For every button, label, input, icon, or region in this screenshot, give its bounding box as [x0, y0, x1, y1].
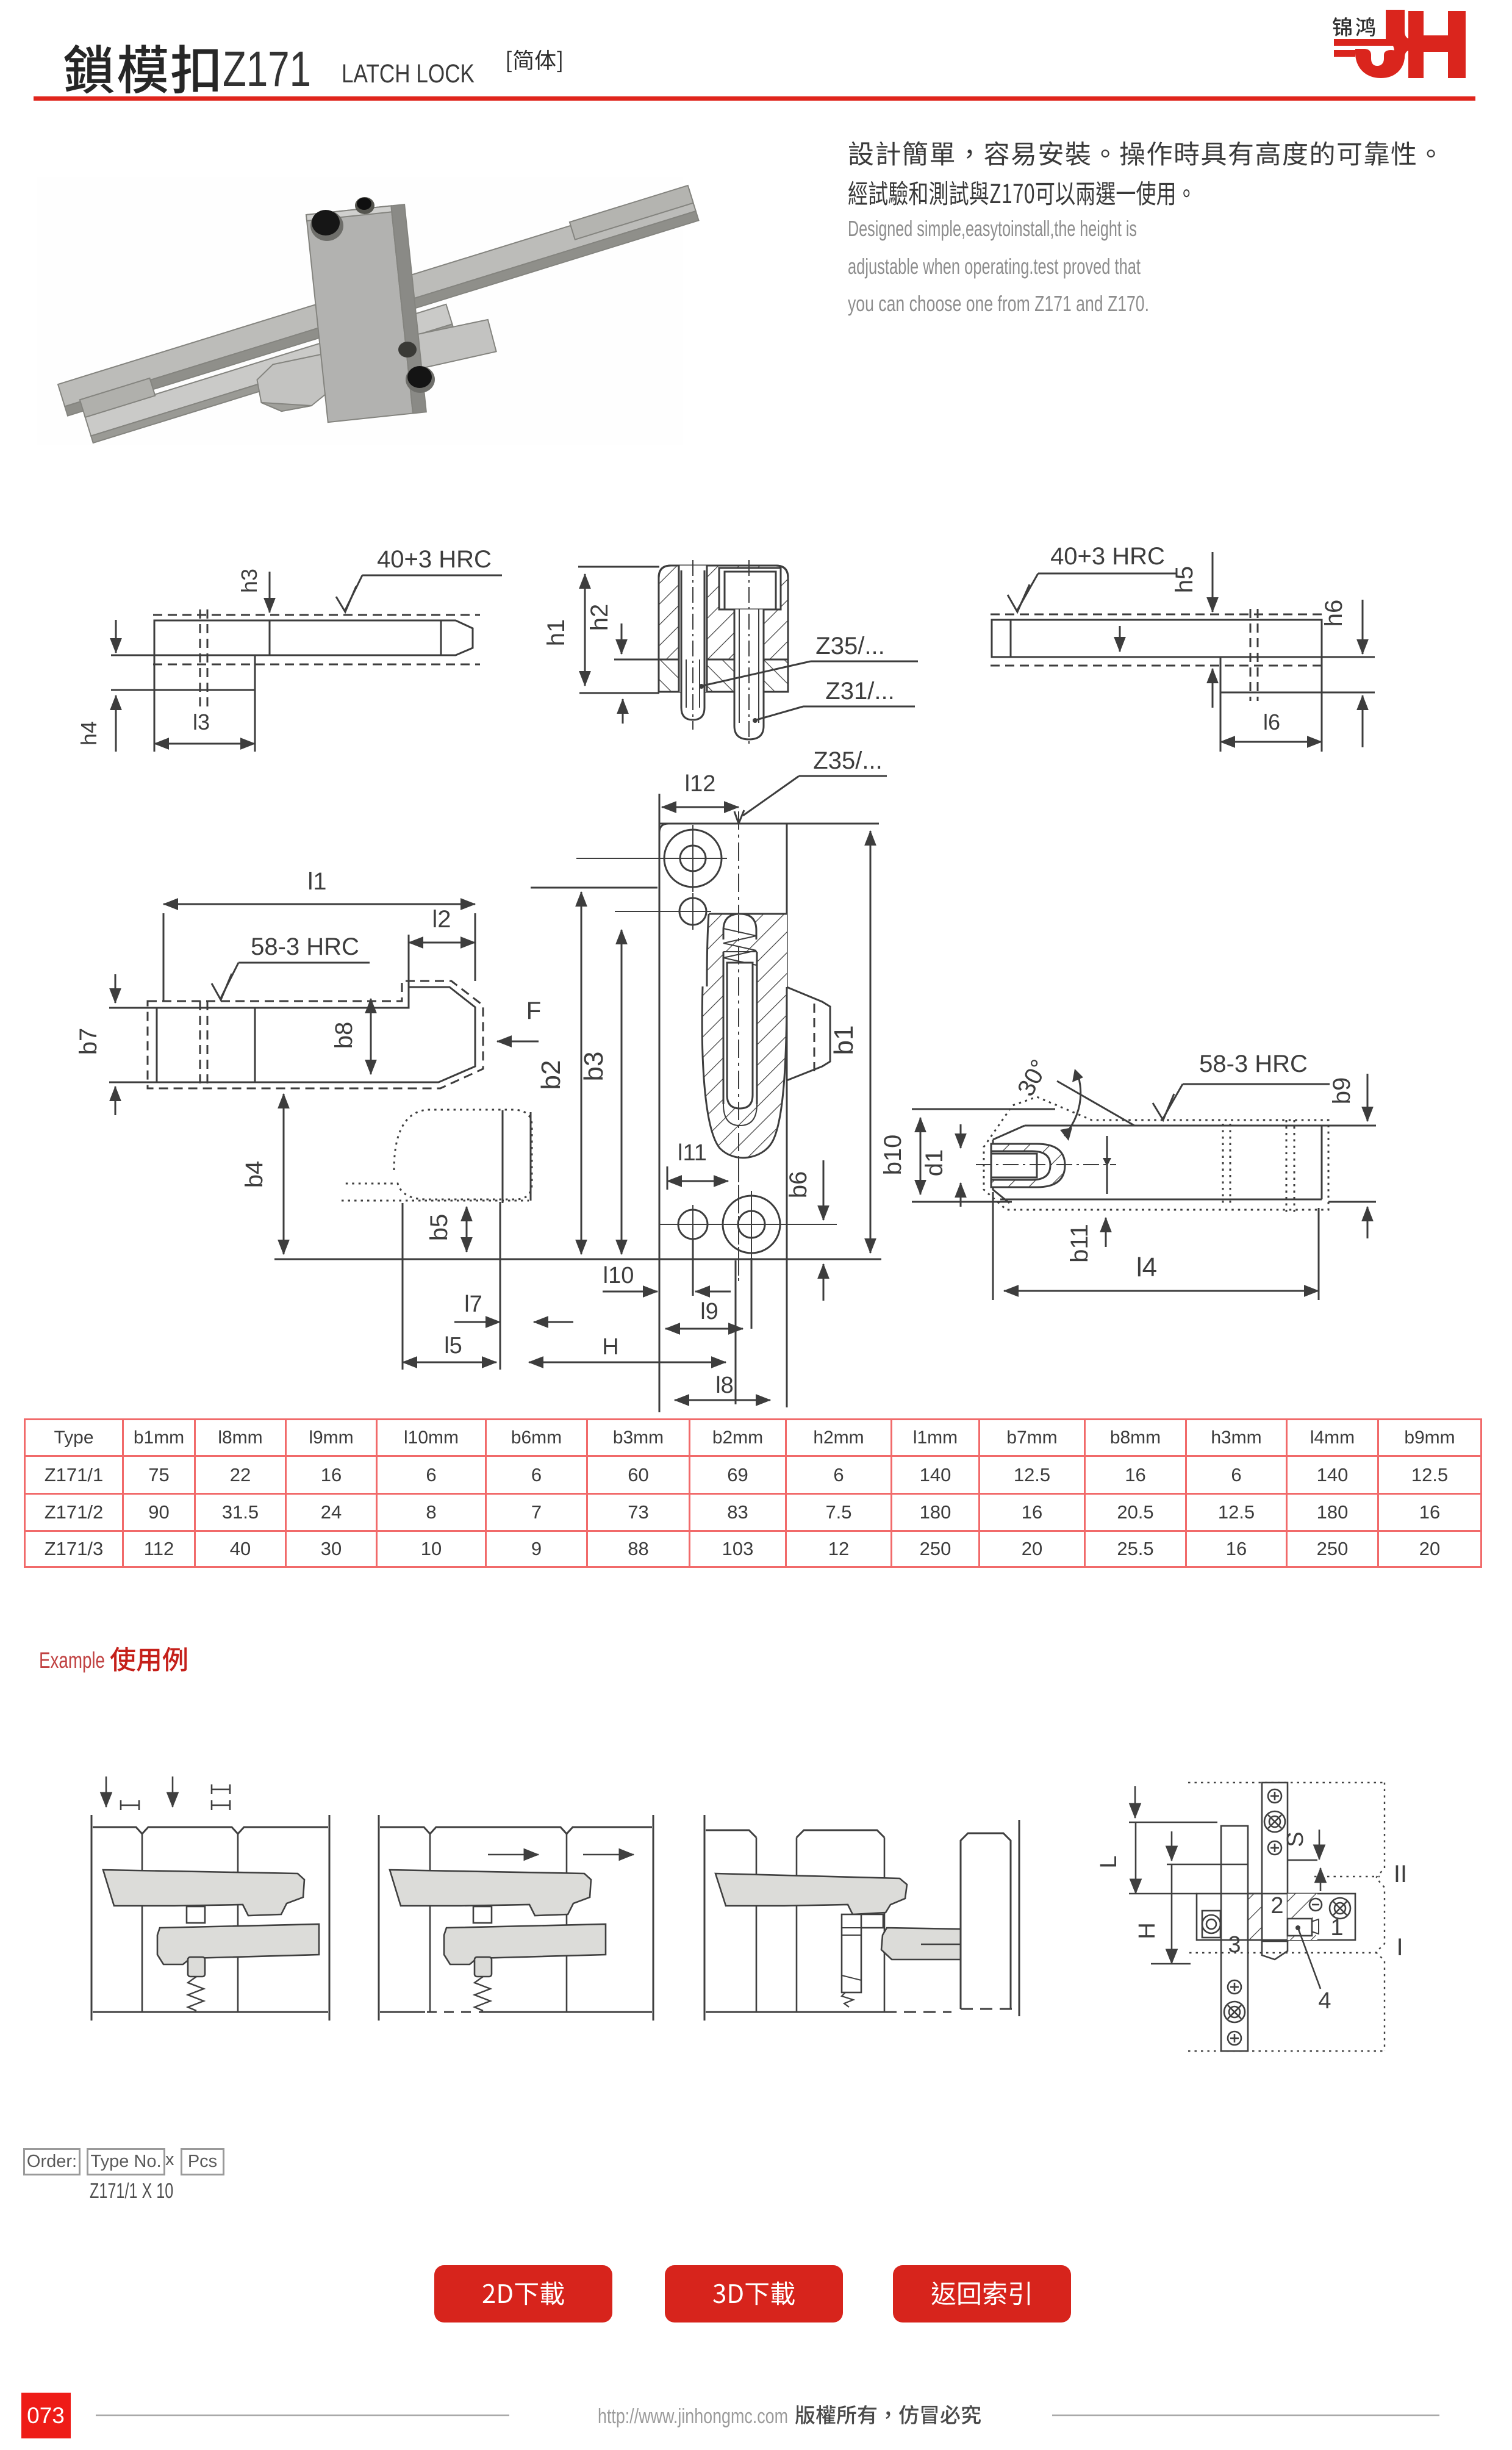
pin block [187, 1906, 205, 1923]
lower arm [157, 1924, 319, 1964]
svg-text:073: 073 [27, 2403, 65, 2428]
mold frame [91, 1815, 93, 2021]
d4 arm outline [157, 987, 475, 1082]
diag4 dotted boundary [1188, 1782, 1385, 1783]
photo hooked arm [254, 319, 500, 414]
d1 l3 dim [154, 743, 255, 745]
d4 b5 dim [466, 1207, 468, 1252]
logo 锦鸿 JH [1333, 17, 1375, 37]
diag1 arrows [106, 1776, 107, 1807]
spring [188, 1977, 204, 2011]
d6 30deg arc [1064, 1074, 1081, 1136]
diag3 upper arm [715, 1873, 907, 1914]
pin block [473, 1906, 492, 1923]
diag2 arrows [488, 1854, 539, 1856]
diag4 parting lines [1129, 1822, 1217, 1823]
d3 mid down arrow [1119, 626, 1121, 652]
d5 pin [727, 963, 753, 1108]
d5 housing outline [702, 914, 787, 1158]
d1 bar outline [154, 620, 473, 655]
d4 dashed outline [148, 981, 483, 1088]
diag4 horizontal block [1197, 1894, 1355, 1940]
footer page box [21, 2393, 71, 2438]
d4 b4 dim [283, 1094, 285, 1254]
diag4 bar3 vertical [1221, 1826, 1248, 2051]
data table [24, 1418, 1482, 1568]
d5 b1 dim [870, 831, 872, 1253]
d5 spring housing hatched [707, 914, 787, 987]
spring block [475, 1957, 492, 1977]
diag4 vertical latch plate [1262, 1783, 1288, 1941]
d6 d1 dim [960, 1124, 962, 1148]
logo H [1408, 11, 1424, 78]
d5 b2 dim [581, 892, 582, 1254]
d4 lower dotted silhouette [342, 1110, 532, 1199]
description chinese line1 [849, 142, 1435, 166]
d2 pin [681, 570, 704, 720]
d5 corner round [659, 824, 668, 833]
diag3 lower arm right [881, 1928, 961, 1960]
d6 extension lines [912, 1108, 1055, 1110]
d4 l2 dim [408, 935, 410, 987]
d5 slot step lines [723, 951, 757, 952]
d5 spring zigzag [723, 929, 756, 965]
d6 d1 vertical tick [1106, 1136, 1108, 1194]
d2 screw cavity [719, 568, 781, 609]
d5 pocket inner arc [723, 1104, 757, 1126]
d5 bottom holes [678, 1210, 708, 1239]
d4 l1 dim [163, 913, 165, 1001]
photo second bar [80, 288, 454, 443]
d6 b10 dim [920, 1118, 922, 1194]
spring [475, 1977, 490, 2011]
description chinese line2 [848, 181, 1189, 206]
d4 b7 dim [109, 1007, 157, 1009]
logo funnel bridge [1386, 31, 1411, 59]
d4 b8 dim [370, 999, 372, 1074]
d3 l6 dim [1220, 692, 1222, 752]
diag3 left plates [704, 1815, 706, 2021]
svg-text:http://www.jinhongmc.com: http://www.jinhongmc.com [598, 2405, 788, 2428]
d1 h3 dim [269, 572, 271, 612]
d5 l12 dim [662, 806, 739, 808]
d6 left tip [993, 1126, 1025, 1203]
d2 screw shaft [734, 609, 764, 739]
d5 b3 dim [621, 930, 623, 1254]
diag3 parting dashes [884, 2011, 951, 2013]
order section [23, 2148, 81, 2175]
diag4 dims [1134, 1786, 1136, 1818]
d2 hatched block [659, 566, 788, 692]
d1 extension lines [111, 655, 154, 656]
d2 extension lines [578, 566, 659, 568]
logo J bars [1334, 39, 1395, 46]
d6 detent centerline [976, 1164, 1116, 1165]
diag3 latch pin bar [842, 1914, 861, 1992]
mold frame [378, 1815, 380, 2021]
d5 plate outline [659, 794, 879, 1260]
d1 step block [154, 655, 255, 690]
header red rule [34, 96, 1475, 101]
d5 centerline overlay [738, 915, 739, 1278]
[简体] tag [507, 50, 562, 72]
d5 slot edges [723, 952, 725, 1104]
d3 bar [992, 620, 1322, 657]
upper latch arm [390, 1870, 591, 1916]
title 鎖模扣 [64, 45, 218, 94]
upper latch arm [103, 1870, 304, 1916]
d3 h5 dim [1212, 552, 1214, 612]
d2 pin channel white [679, 566, 707, 692]
d4 baseline [274, 1259, 881, 1260]
d2 screw centerline [748, 560, 750, 748]
d6 detent [991, 1144, 1065, 1187]
d3 step block [1220, 657, 1322, 692]
d3 dashed outline [991, 614, 1325, 616]
diag3 hook shape [861, 1914, 883, 1928]
d5 centerline [738, 811, 739, 1281]
d1 left down arrow [115, 620, 117, 653]
d2 pin centerline [692, 560, 693, 730]
order example [90, 2179, 173, 2204]
photo long bar [57, 185, 698, 416]
d6 arm solid [1000, 1081, 1322, 1199]
d6 l4 dim [1004, 1290, 1319, 1292]
footer rules [96, 2415, 509, 2416]
d1 dashed outline [153, 614, 480, 616]
logo J bowl [1355, 49, 1405, 78]
lower arm [444, 1924, 606, 1964]
d6 dotted outline [984, 1097, 1328, 1210]
diag3 right plate [961, 1833, 1011, 2009]
d5 wing trapezoid [787, 987, 830, 1080]
product photo: latch lock assembly [37, 177, 699, 445]
d1 h4 dim [115, 695, 117, 752]
d2 h1 dim [584, 574, 586, 686]
photo central block [306, 204, 426, 422]
d5 lower extension lines [659, 1260, 661, 1412]
spring block [188, 1957, 205, 1977]
d2 h2 dim [621, 623, 623, 654]
photo screws [310, 197, 435, 393]
d5 top holes [664, 830, 722, 887]
d5 spring dome [723, 914, 756, 939]
logo J stem [1386, 10, 1405, 38]
